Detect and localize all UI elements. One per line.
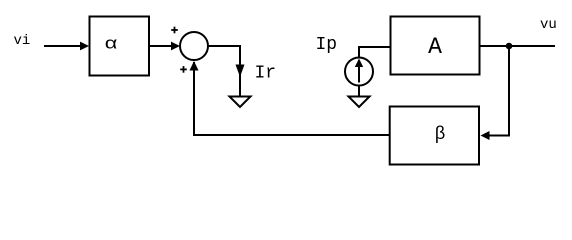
wire vi input <box>44 45 81 47</box>
ground for Ir <box>230 97 251 108</box>
plus sign bottom <box>180 66 187 73</box>
junction dot <box>506 43 513 50</box>
svg-text:β: β <box>435 123 445 143</box>
wire current source to ground <box>358 86 360 97</box>
wire output down to beta <box>490 46 510 136</box>
ground for Ip <box>349 97 370 108</box>
summing junction U1 <box>180 32 208 60</box>
wire alpha to summer <box>149 45 172 47</box>
svg-text:Ip: Ip <box>316 35 338 55</box>
svg-text:α: α <box>105 34 118 53</box>
block A <box>391 17 480 75</box>
wire current source to A <box>359 47 390 58</box>
svg-text:vi: vi <box>14 33 31 49</box>
wire summer to Ir branch <box>208 46 240 96</box>
svg-text:A: A <box>428 34 442 60</box>
current source Ip <box>345 58 373 86</box>
plus sign top <box>171 27 178 34</box>
wire beta feedback to summer <box>194 62 390 135</box>
wire A output to vu <box>480 45 556 47</box>
block beta <box>390 107 479 165</box>
svg-text:vu: vu <box>540 17 557 33</box>
svg-text:Ir: Ir <box>255 64 277 84</box>
arrow Ir down <box>236 65 245 78</box>
block alpha <box>90 17 150 76</box>
